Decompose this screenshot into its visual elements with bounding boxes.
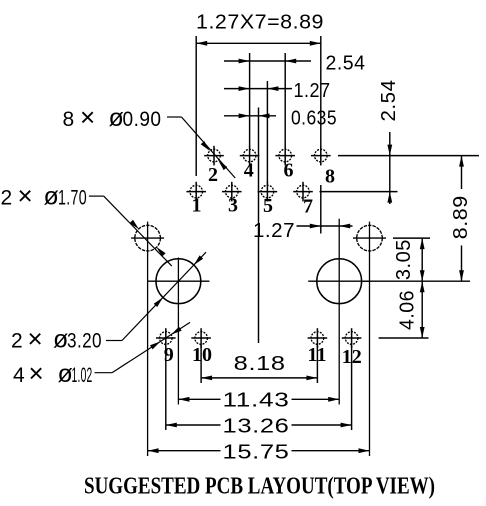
svg-text:3.20: 3.20 <box>67 330 102 353</box>
left 1.70 hole <box>131 225 164 251</box>
extension line pin1 top <box>195 36 197 176</box>
dimension 1.27 middle text <box>253 220 295 242</box>
svg-text:5: 5 <box>263 195 273 217</box>
leader to pin 9 <box>95 322 191 372</box>
extension line 3.20 row right <box>363 280 470 282</box>
svg-text:0.635: 0.635 <box>291 107 337 129</box>
svg-text:4: 4 <box>244 160 254 182</box>
dimension 11.43 line <box>178 397 339 402</box>
dimension 11.43 text <box>223 390 290 412</box>
dimension 4.06 line <box>420 281 425 338</box>
svg-text:2.54: 2.54 <box>326 52 366 74</box>
svg-text:2.54: 2.54 <box>378 80 400 122</box>
extension line pin6 <box>284 53 286 147</box>
pin 6 label <box>284 160 294 182</box>
dimension 2.54 right line <box>387 132 392 204</box>
pin 12 label <box>342 346 362 368</box>
dimension 8.18 line <box>201 376 317 381</box>
extension line bottom pin row right <box>379 337 429 339</box>
pin 3 hole <box>222 182 242 202</box>
svg-text:1.27: 1.27 <box>253 220 295 242</box>
svg-text:×: × <box>29 358 45 388</box>
svg-text:15.75: 15.75 <box>223 442 290 464</box>
extension line pin9 down <box>165 346 167 431</box>
dimension 2.54 top line <box>224 59 311 64</box>
dimension 1.27X7=8.89 text <box>196 11 324 33</box>
pin 8 hole <box>311 146 331 166</box>
pin 9 hole <box>156 328 176 348</box>
svg-text:1.27: 1.27 <box>294 80 331 102</box>
dimension 2.54 right text <box>378 80 400 122</box>
extension line pin10 down <box>200 346 202 384</box>
dimension 13.26 line <box>166 423 352 428</box>
svg-text:0.90: 0.90 <box>123 108 162 131</box>
dimension 3.05 text <box>393 239 415 280</box>
svg-text:7: 7 <box>303 196 313 218</box>
extension line pin4 <box>249 53 251 147</box>
svg-text:3: 3 <box>228 195 238 217</box>
svg-text:8: 8 <box>325 166 335 188</box>
extension line pin7 row right <box>320 191 398 193</box>
right 3.20 hole <box>308 259 370 304</box>
svg-text:ø: ø <box>44 183 60 211</box>
callout 2 x dia 3.20 text <box>11 324 102 354</box>
extension line pin8 row right <box>338 155 479 157</box>
dimension 4.06 text <box>396 290 418 330</box>
dimension 1.27X7=8.89 line <box>196 41 321 46</box>
extension line 1.70 row right <box>393 237 430 239</box>
dimension 1.27 top text <box>294 80 331 102</box>
svg-text:1.70: 1.70 <box>58 187 87 210</box>
pin 2 label <box>208 164 218 186</box>
pin 10 hole <box>191 328 211 348</box>
pin 9 label <box>164 344 174 366</box>
right 1.70 hole centerline down to 15.75 <box>369 222 371 456</box>
callout 2 x dia 1.70 text <box>1 181 88 211</box>
title text <box>84 474 435 500</box>
svg-text:4.06: 4.06 <box>396 290 418 330</box>
dimension 2.54 top text <box>326 52 366 74</box>
right 3.20 hole centerline up-down <box>338 219 340 405</box>
svg-text:1: 1 <box>192 195 202 217</box>
pin 11 hole <box>308 328 328 348</box>
extension line pin8 top <box>320 36 322 146</box>
pin 1 label <box>192 195 202 217</box>
pin 7 hole <box>293 182 313 202</box>
svg-text:1.27X7=8.89: 1.27X7=8.89 <box>196 11 324 33</box>
pin 12 hole <box>342 328 362 348</box>
pin 11 label <box>308 344 327 366</box>
svg-text:SUGGESTED PCB LAYOUT(TOP VIEW): SUGGESTED PCB LAYOUT(TOP VIEW) <box>84 474 435 500</box>
extension line pin5 <box>266 81 268 183</box>
leader to left 1.70 hole <box>89 196 172 266</box>
centerline vertical <box>258 108 260 344</box>
extension line pin8 bottom <box>320 185 322 234</box>
svg-text:×: × <box>18 181 34 211</box>
svg-text:13.26: 13.26 <box>223 416 290 438</box>
svg-text:8.18: 8.18 <box>234 353 286 375</box>
leader to left 3.20 hole <box>106 252 206 340</box>
leader to pin 2 <box>167 117 235 178</box>
svg-text:8: 8 <box>63 108 75 131</box>
dimension 1.27 top line <box>224 86 292 91</box>
left 1.70 hole centerline down to 15.75 <box>147 222 149 456</box>
callout 8 x dia 0.90 text <box>63 102 162 132</box>
dimension 8.89 line <box>459 156 464 282</box>
extension line pin12 down <box>351 346 353 431</box>
dimension 0.635 line <box>224 113 276 118</box>
right 1.70 hole <box>353 225 386 251</box>
dimension 3.05 line <box>420 238 425 281</box>
dimension 1.27 middle line <box>297 224 353 229</box>
svg-text:1.02: 1.02 <box>72 364 93 387</box>
pin 4 hole <box>240 146 260 166</box>
extension line pin11 down <box>316 346 318 384</box>
svg-text:10: 10 <box>192 344 212 366</box>
pin 5 hole <box>258 182 278 202</box>
svg-text:8.89: 8.89 <box>450 195 472 239</box>
svg-text:×: × <box>28 324 44 354</box>
dimension 8.18 text <box>234 353 286 375</box>
pin 7 label <box>303 196 313 218</box>
svg-text:×: × <box>80 102 96 132</box>
dimension 13.26 text <box>223 416 290 438</box>
left 3.20 hole <box>147 259 209 304</box>
pin 1 hole <box>186 182 206 202</box>
pin 6 hole <box>275 146 295 166</box>
left 3.20 hole centerline down <box>177 258 179 405</box>
svg-text:4: 4 <box>13 364 25 387</box>
pin 4 label <box>244 160 254 182</box>
svg-text:2: 2 <box>1 187 13 210</box>
dimension 8.89 text <box>450 195 472 239</box>
callout 4 x dia 1.02 text <box>13 358 93 388</box>
pin 8 label <box>325 166 335 188</box>
pin 3 label <box>228 195 238 217</box>
pin 5 label <box>263 195 273 217</box>
pin 10 label <box>192 344 212 366</box>
dimension 15.75 text <box>223 442 290 464</box>
svg-text:11.43: 11.43 <box>223 390 290 412</box>
dimension 0.635 text <box>291 107 337 129</box>
svg-text:6: 6 <box>284 160 294 182</box>
svg-text:2: 2 <box>11 330 23 353</box>
dimension 15.75 line <box>148 448 370 453</box>
pin 2 hole <box>204 146 224 166</box>
svg-text:3.05: 3.05 <box>393 239 415 280</box>
svg-text:2: 2 <box>208 164 218 186</box>
